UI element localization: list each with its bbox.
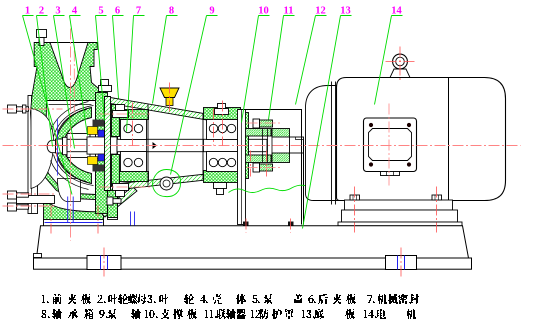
drain flange plate xyxy=(17,196,55,204)
right bearing xyxy=(207,120,239,172)
svg-text:10: 10 xyxy=(258,6,269,17)
oil cup xyxy=(160,88,179,106)
svg-text:5: 5 xyxy=(98,6,103,17)
motor foot bolt right xyxy=(432,195,442,200)
coupling bolt centerline upper xyxy=(247,122,283,124)
leader line 10 xyxy=(242,16,270,123)
coupling pump hub band upper (11) xyxy=(244,129,272,137)
lifting eye centerlines xyxy=(386,47,415,83)
casing pedestal foot xyxy=(44,204,104,227)
base foot pad right xyxy=(386,256,417,270)
guard foot left xyxy=(243,222,249,226)
mechanical seal lower xyxy=(88,154,111,172)
svg-text:4: 4 xyxy=(72,6,78,17)
volute interior xyxy=(43,101,96,195)
main shaft centerline xyxy=(3,145,521,147)
svg-text:12: 12 xyxy=(315,6,326,17)
left gland bolt upper xyxy=(113,105,129,118)
left bearing boss upper xyxy=(118,110,149,120)
motor bolt centerline right xyxy=(436,187,438,233)
casing rear seal chamber upper xyxy=(96,93,108,133)
right gland bolt upper xyxy=(215,104,229,115)
impeller vane lower xyxy=(56,148,92,184)
svg-text:11: 11 xyxy=(284,6,294,17)
left boss bolt centerline xyxy=(132,103,134,146)
volute drain channel xyxy=(58,179,81,202)
leader line 11 xyxy=(269,16,295,120)
svg-text:6: 6 xyxy=(115,6,120,17)
motor joint lines xyxy=(332,82,336,205)
pedestal base plate xyxy=(44,220,104,227)
base left tab xyxy=(34,254,42,258)
impeller vane upper (3) xyxy=(56,108,92,144)
coupling bolt upper xyxy=(253,119,273,128)
terminal box screws xyxy=(369,123,411,167)
bearing housing support rib xyxy=(101,187,138,218)
suction chamber interior xyxy=(31,109,53,189)
left bearing xyxy=(121,120,147,172)
protective guard (12) xyxy=(238,110,304,225)
discharge second centerline xyxy=(73,51,75,113)
lifting eye xyxy=(390,54,410,77)
drain flange bolt A xyxy=(8,191,29,199)
motor foot bolt left xyxy=(350,195,360,200)
motor fan cowl joint xyxy=(448,78,450,201)
housing right flange xyxy=(239,113,249,179)
terminal box vertical centerline xyxy=(388,104,390,186)
motor bolt centerline left xyxy=(354,187,356,233)
bearing housing left wall xyxy=(105,97,111,191)
impeller shroud top xyxy=(47,101,94,105)
front clamp plate (1) xyxy=(28,96,38,214)
coupling flange lines xyxy=(263,129,273,163)
bearing housing cavity ribs xyxy=(148,105,203,186)
leader line 1 xyxy=(23,16,73,195)
gland bolt centerline lower xyxy=(99,186,153,188)
housing drain bolt xyxy=(214,183,227,195)
right bearing boss upper xyxy=(204,108,241,120)
motor foot plate xyxy=(345,200,453,210)
svg-text:3: 3 xyxy=(55,6,60,17)
pump vertical centerline xyxy=(70,29,72,241)
leader line 13 xyxy=(303,16,352,229)
guard break wavy line xyxy=(229,184,334,193)
mechanical seal upper (7) xyxy=(88,120,111,138)
left gland bolt lower xyxy=(113,184,129,197)
leader line 12 xyxy=(296,16,327,105)
motor shaft stub xyxy=(290,137,304,153)
right boss bolt centerline xyxy=(214,101,223,146)
oil sight glass xyxy=(160,177,173,190)
impeller nut (2) xyxy=(47,137,67,154)
svg-text:8: 8 xyxy=(169,6,174,17)
pedestal blue lines xyxy=(68,197,135,226)
coupling pump hub band lower xyxy=(244,155,272,163)
nut section blue line xyxy=(57,119,59,176)
motor support block xyxy=(338,210,462,226)
motor body xyxy=(337,78,506,201)
oil cup centerline xyxy=(169,83,171,113)
suction bolt centerline upper xyxy=(3,108,63,110)
coupling motor hub upper xyxy=(272,129,290,138)
impeller hub xyxy=(67,134,90,158)
casing rear seal chamber lower xyxy=(96,159,108,214)
drain flange bolt B xyxy=(8,203,29,211)
impeller shroud lines xyxy=(51,102,94,190)
leader line 6 xyxy=(113,16,124,99)
leader line 8 xyxy=(153,16,178,104)
pad centerline right xyxy=(400,248,402,278)
right bearing boss lower xyxy=(204,171,241,183)
legend text (vectorized CJK) xyxy=(41,294,419,319)
coupling bolt centerline lower xyxy=(246,151,291,233)
svg-text:1: 1 xyxy=(25,6,30,17)
svg-text:13: 13 xyxy=(340,6,351,17)
leader line 4 xyxy=(70,16,88,136)
svg-text:14: 14 xyxy=(391,6,402,17)
terminal box xyxy=(364,118,417,176)
svg-text:9: 9 xyxy=(209,6,214,17)
impeller nut cross xyxy=(45,135,69,157)
front clamp bolt upper xyxy=(8,105,29,113)
suction bolt centerline lowerB xyxy=(3,205,56,207)
coupling motor hub lower xyxy=(272,153,290,163)
leader line 2 xyxy=(37,16,53,147)
coupling bolt lower xyxy=(253,163,273,172)
support plate (10) xyxy=(238,110,246,225)
leader line 9 xyxy=(171,16,218,175)
bearing housing top wall (8) xyxy=(105,97,216,122)
casing-cover bolt top xyxy=(99,80,112,92)
guard foot right xyxy=(288,222,294,226)
pump shaft (9) xyxy=(67,137,267,154)
leader line 14 xyxy=(375,16,403,105)
pedestal bolt centerlines xyxy=(51,206,98,234)
pump cover plate (5) xyxy=(108,100,118,220)
casing flange bolt top xyxy=(37,30,47,46)
rear clamp plate lower xyxy=(112,155,120,187)
svg-text:2: 2 xyxy=(39,6,44,17)
base bottom slab xyxy=(34,258,472,269)
base foot pad left xyxy=(87,256,121,270)
sight glass green cloud xyxy=(153,170,181,197)
motor front bell (14) xyxy=(306,86,342,201)
gland bolt centerline upper xyxy=(99,113,153,115)
left bearing boss lower xyxy=(118,172,149,182)
leader line 7 xyxy=(127,16,145,132)
bearing housing bottom wall xyxy=(111,172,229,191)
svg-text:7: 7 xyxy=(136,6,141,17)
base plate body (13) xyxy=(37,226,469,258)
leader line 5 xyxy=(96,16,107,121)
casing discharge channel xyxy=(50,43,88,88)
leader line 3 xyxy=(54,16,75,149)
pad centerline left xyxy=(103,248,105,278)
casing-cover bolt bottom xyxy=(107,197,121,205)
pump casing body (4) xyxy=(31,43,107,214)
rear clamp plate upper (6) xyxy=(112,105,120,137)
suction bolt centerline lowerA xyxy=(3,193,56,195)
